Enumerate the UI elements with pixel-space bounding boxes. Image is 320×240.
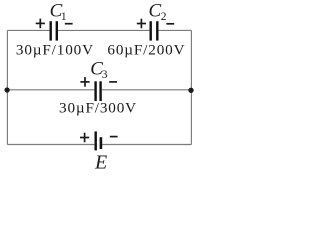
capacitor C1 polarity + [36, 19, 45, 29]
capacitor C3 plates [96, 81, 101, 101]
capacitor C3 polarity + [80, 77, 89, 87]
capacitor C1 polarity - [65, 23, 73, 25]
svg-text:2: 2 [161, 11, 167, 23]
wire bottom-left segment [7, 144, 94, 146]
wire top-middle segment [58, 29, 149, 31]
wire top-right segment [159, 29, 192, 31]
wire bottom-right segment [102, 144, 191, 146]
wire middle-right segment [102, 89, 191, 91]
battery E polarity - [110, 136, 118, 138]
capacitor C2 plates [151, 21, 158, 40]
svg-text:C: C [149, 1, 162, 22]
capacitor C3 polarity - [109, 81, 117, 83]
wire right vertical [190, 30, 192, 144]
capacitor C2 polarity + [137, 19, 146, 29]
svg-text:E: E [94, 152, 107, 174]
wire left vertical [6, 30, 8, 144]
battery E short plate [100, 137, 103, 149]
node right junction dot [188, 88, 193, 93]
svg-text:1: 1 [61, 11, 67, 23]
svg-text:3: 3 [102, 69, 108, 81]
capacitor C2 polarity - [166, 23, 174, 25]
svg-text:30µF/100V: 30µF/100V [16, 41, 94, 58]
battery E long plate [94, 131, 96, 150]
wire top-left segment [7, 29, 49, 31]
capacitor C1 plates [51, 21, 57, 40]
node left junction dot [4, 87, 9, 92]
battery E polarity + [80, 133, 89, 143]
svg-text:30µF/300V: 30µF/300V [59, 99, 137, 116]
wire middle-left segment [7, 89, 94, 91]
svg-text:60µF/200V: 60µF/200V [107, 41, 185, 58]
